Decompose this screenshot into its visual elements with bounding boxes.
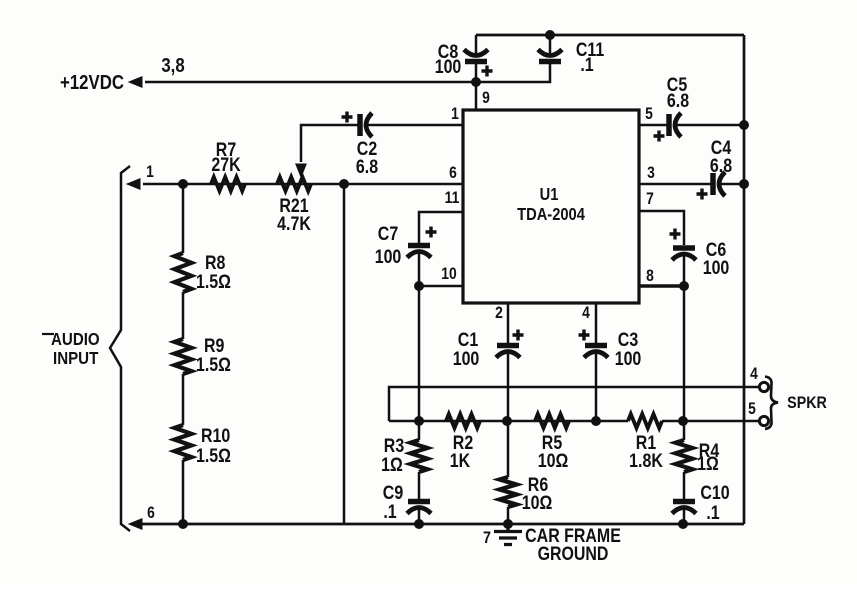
svg-text:4: 4 (750, 365, 758, 383)
wire R3 to C9 (418, 472, 421, 499)
wire pin 4 to C3 (595, 303, 598, 343)
junction +12V node (471, 77, 481, 87)
svg-text:1Ω: 1Ω (697, 453, 719, 475)
wire speaker line 5 (389, 420, 760, 423)
resistor R5 (535, 414, 569, 428)
capacitor C11 (538, 50, 562, 56)
wire pin 3 to C4 (639, 183, 711, 186)
wire C1 down (507, 352, 510, 421)
svg-text:100: 100 (375, 246, 402, 268)
wire C11 bottom lead (476, 64, 550, 82)
resistor R4 (676, 440, 693, 472)
junction R4 top (678, 416, 688, 426)
svg-text:1: 1 (146, 163, 154, 181)
potentiometer R21 (277, 177, 311, 191)
svg-text:+12VDC: +12VDC (60, 71, 124, 94)
svg-text:AUDIO: AUDIO (51, 329, 100, 350)
svg-text:TDA-2004: TDA-2004 (517, 205, 585, 224)
svg-text:10Ω: 10Ω (538, 450, 569, 472)
svg-text:4.7K: 4.7K (277, 213, 311, 235)
wire pin 1 to C2 (367, 124, 463, 127)
wire C9 to ground rail (418, 508, 421, 524)
wire C3 down (595, 352, 598, 421)
junction C3 bottom (591, 416, 601, 426)
svg-text:GROUND: GROUND (538, 543, 609, 565)
junction C11 top (545, 30, 555, 40)
svg-text:3: 3 (647, 164, 655, 182)
svg-text:3,8: 3,8 (161, 54, 184, 77)
svg-text:1.5Ω: 1.5Ω (196, 445, 231, 467)
svg-text:1Ω: 1Ω (381, 454, 403, 476)
wire C6 down column (683, 255, 686, 440)
capacitor C8 (464, 50, 488, 56)
wire pin 9 lead (475, 64, 478, 110)
svg-text:6.8: 6.8 (710, 155, 732, 177)
resistor R8 (175, 253, 192, 292)
junction input node (178, 179, 188, 189)
capacitor C6 (673, 245, 695, 251)
wire feedback column (343, 184, 346, 524)
junction pin 8 node (679, 281, 689, 291)
junction C10 bottom (678, 519, 688, 529)
svg-text:6: 6 (449, 164, 457, 182)
wire R4 to C10 (683, 472, 686, 499)
resistor R7 (211, 177, 245, 191)
svg-text:5: 5 (645, 105, 653, 123)
wire pin 8 (639, 284, 684, 287)
wire C11 top lead (549, 35, 552, 55)
resistor R10 (175, 425, 192, 460)
svg-text:1.5Ω: 1.5Ω (196, 271, 231, 293)
junction C4 right rail (739, 179, 749, 189)
capacitor C4 (710, 173, 716, 195)
wire input divider column (182, 184, 185, 524)
wire C8 top lead (475, 35, 478, 55)
wire audio line pin 6 (143, 183, 463, 186)
junction C9 bottom (414, 519, 424, 529)
svg-text:1K: 1K (450, 450, 471, 472)
svg-text:R10: R10 (201, 425, 230, 447)
terminal SPKR 4 (759, 382, 768, 391)
wire pin 11 to C7 (419, 212, 463, 243)
svg-text:6: 6 (147, 504, 155, 522)
svg-text:.1: .1 (383, 501, 397, 523)
svg-text:C10: C10 (700, 482, 729, 504)
wire pin 5 to C5 (639, 124, 667, 127)
wire right rail (743, 35, 746, 524)
wire pin 7 to C6 (639, 211, 684, 245)
wire input cable rail (110, 166, 130, 531)
svg-text:C7: C7 (378, 223, 398, 245)
capacitor C1 (497, 343, 519, 349)
svg-text:6.8: 6.8 (667, 90, 689, 112)
brace SPKR (765, 377, 778, 430)
svg-text:10: 10 (441, 265, 456, 283)
wire C4 to right rail (720, 183, 744, 186)
resistor R3 (411, 440, 428, 472)
svg-text:100: 100 (435, 56, 462, 78)
junction R10 bottom (178, 519, 188, 529)
node 6 output arrow (129, 519, 142, 529)
svg-text:1.5Ω: 1.5Ω (196, 354, 231, 376)
capacitor C3 (585, 343, 607, 349)
wire C7 down column (418, 252, 421, 440)
wire pin 2 to C1 (507, 303, 510, 343)
svg-text:7: 7 (646, 190, 654, 208)
svg-text:U1: U1 (540, 185, 559, 204)
wire C10 bottom lead (683, 508, 686, 524)
wire bottom ground rail (140, 523, 744, 526)
svg-text:11: 11 (445, 189, 460, 207)
capacitor C5 (666, 114, 672, 136)
op-amp U1 TDA-2004 (463, 110, 639, 303)
svg-text:10Ω: 10Ω (522, 492, 553, 514)
resistor R1 (628, 414, 662, 428)
junction R6 top (502, 416, 512, 426)
svg-text:6.8: 6.8 (356, 156, 378, 178)
capacitor C2 (357, 114, 363, 136)
wire R6 bottom lead (507, 507, 510, 524)
resistor R9 (175, 339, 192, 374)
junction ground node (503, 519, 513, 529)
wire speaker line 4 (389, 387, 760, 421)
svg-text:.1: .1 (580, 54, 594, 76)
svg-text:100: 100 (615, 348, 642, 370)
resistor R2 (446, 414, 480, 428)
wire top rail (476, 34, 744, 37)
svg-text:2: 2 (495, 304, 503, 322)
svg-text:SPKR: SPKR (787, 394, 827, 412)
wire C5 to right rail (676, 124, 744, 127)
svg-text:.1: .1 (706, 502, 720, 524)
svg-text:INPUT: INPUT (53, 348, 98, 369)
wire +12VDC feed (145, 81, 476, 84)
svg-text:7: 7 (483, 529, 491, 547)
capacitor C9 (408, 499, 430, 505)
AUDIO INPUT label (42, 333, 54, 335)
svg-text:4: 4 (582, 304, 590, 322)
svg-text:5: 5 (748, 400, 756, 418)
wire R6 top lead (507, 421, 510, 477)
svg-text:1.8K: 1.8K (629, 450, 663, 472)
svg-text:1: 1 (451, 105, 459, 123)
ground car frame (494, 524, 522, 545)
svg-text:100: 100 (703, 257, 730, 279)
junction pin 10 node (414, 281, 424, 291)
wire pin 10 (419, 285, 463, 288)
svg-text:8: 8 (646, 267, 654, 285)
junction R21 right node (339, 179, 349, 189)
R21 wiper arrow (296, 164, 306, 177)
capacitor C10 (673, 499, 695, 505)
wire C2 to R21 wiper (301, 125, 358, 162)
junction C5 right rail (739, 120, 749, 130)
svg-text:100: 100 (453, 348, 480, 370)
terminal SPKR 5 (759, 416, 768, 425)
svg-text:27K: 27K (211, 154, 241, 176)
svg-text:9: 9 (482, 89, 490, 107)
junction R3 top (414, 416, 424, 426)
capacitor C7 (408, 243, 430, 249)
resistor R6 (500, 477, 517, 507)
